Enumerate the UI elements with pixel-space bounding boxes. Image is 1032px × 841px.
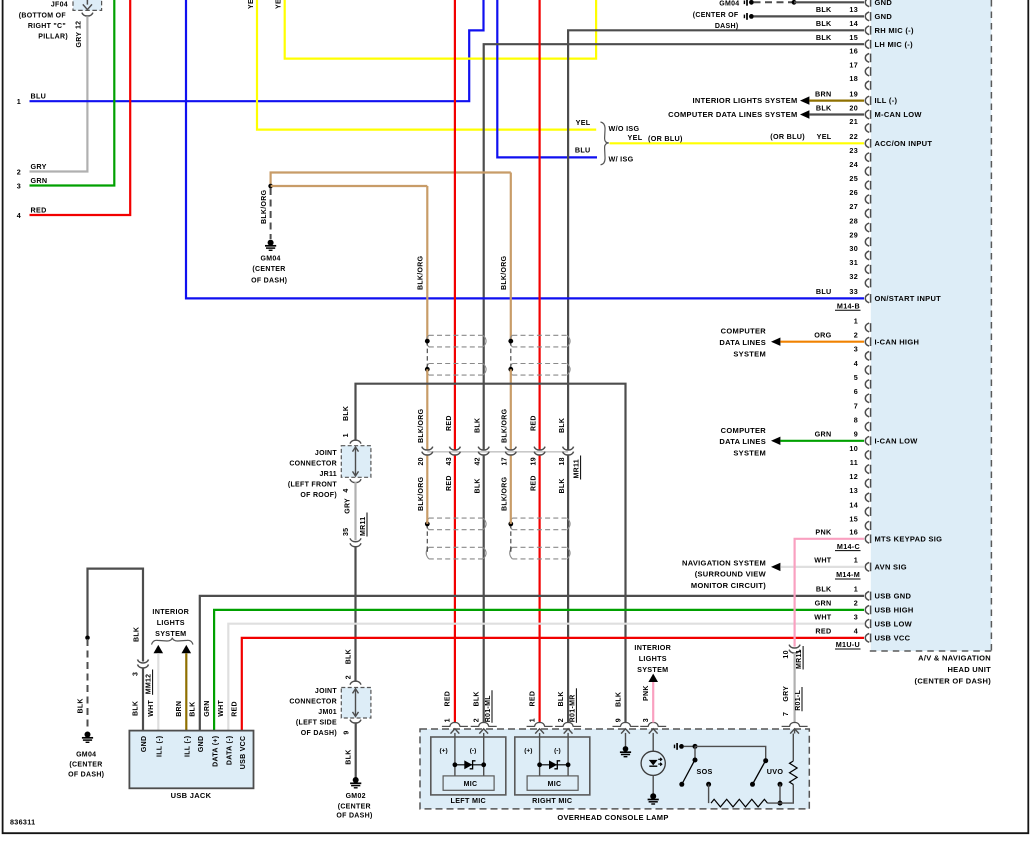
svg-text:MR11: MR11	[360, 517, 367, 537]
svg-text:SYSTEM: SYSTEM	[155, 629, 186, 638]
svg-text:ILL (-): ILL (-)	[875, 96, 898, 105]
svg-text:(CENTER OF DASH): (CENTER OF DASH)	[915, 677, 992, 686]
svg-text:ACC/ON INPUT: ACC/ON INPUT	[875, 139, 933, 148]
svg-text:YEL: YEL	[628, 133, 643, 142]
wire BLK LH MIC(-) pin 15	[484, 44, 864, 450]
wire BLK USB GND long	[200, 596, 864, 731]
svg-text:30: 30	[849, 244, 858, 253]
GRY wire to lamp pin 7	[793, 653, 795, 723]
svg-text:9: 9	[615, 718, 622, 722]
svg-text:INTERIOR LIGHTS SYSTEM: INTERIOR LIGHTS SYSTEM	[693, 96, 798, 105]
wire BLK RH MIC(-) pin 14	[568, 30, 864, 450]
connector JF04 box (bottom of right C pillar)	[73, 0, 102, 10]
svg-text:BLU: BLU	[31, 92, 47, 101]
svg-text:BLK: BLK	[343, 406, 350, 421]
BLK/ORG shield drain wires to GM04	[271, 173, 511, 187]
svg-text:RED: RED	[529, 691, 536, 707]
svg-text:17: 17	[849, 60, 858, 69]
svg-text:M1U-U: M1U-U	[836, 640, 860, 649]
svg-text:1: 1	[343, 433, 350, 437]
svg-text:BLK/ORG: BLK/ORG	[418, 408, 425, 443]
LED lamp symbol	[652, 733, 654, 751]
svg-text:9: 9	[344, 730, 351, 734]
svg-text:(CENTER OF: (CENTER OF	[693, 12, 739, 19]
svg-text:HEAD UNIT: HEAD UNIT	[947, 665, 991, 674]
connector M14-B pin brackets 12-33	[865, 0, 869, 7]
svg-text:4: 4	[17, 211, 21, 220]
svg-text:BLK: BLK	[559, 418, 566, 433]
svg-text:42: 42	[474, 457, 481, 465]
red mic wire left (pin1 left mic) from top	[454, 0, 456, 450]
connector break above JM01	[350, 681, 361, 684]
svg-text:YEL: YEL	[276, 0, 283, 9]
svg-text:AVN SIG: AVN SIG	[875, 563, 907, 572]
svg-text:(-): (-)	[554, 748, 561, 755]
A/V & navigation head unit connector box (right)	[871, 0, 992, 651]
svg-text:DATA LINES: DATA LINES	[719, 437, 766, 446]
svg-text:10: 10	[783, 650, 790, 658]
svg-text:RED: RED	[531, 415, 538, 431]
svg-text:GM04: GM04	[260, 256, 280, 263]
svg-text:OF DASH): OF DASH)	[251, 277, 287, 284]
ground GM04 middle	[268, 240, 274, 246]
svg-text:COMPUTER DATA LINES SYSTEM: COMPUTER DATA LINES SYSTEM	[668, 110, 797, 119]
svg-text:COMPUTER: COMPUTER	[721, 327, 767, 336]
svg-text:(LEFT SIDE: (LEFT SIDE	[296, 719, 337, 726]
svg-text:BLK: BLK	[816, 585, 832, 594]
ground GM04 at pin 13	[743, 15, 745, 19]
svg-text:3: 3	[854, 345, 858, 354]
left mic internal wires	[454, 733, 456, 776]
svg-text:R01-MR: R01-MR	[569, 694, 576, 722]
svg-text:RIGHT "C": RIGHT "C"	[28, 23, 66, 30]
svg-text:(OR BLU): (OR BLU)	[648, 134, 683, 143]
svg-text:JOINT: JOINT	[315, 450, 338, 457]
svg-text:BLK: BLK	[615, 692, 622, 707]
svg-text:(CENTER: (CENTER	[252, 266, 285, 273]
lamp pin arrows (inside box)	[451, 729, 460, 734]
svg-text:WHT: WHT	[814, 556, 832, 565]
svg-text:BLK: BLK	[474, 691, 481, 706]
connector break below JR11	[350, 479, 361, 482]
connector M14-M pin bracket 1	[865, 563, 869, 572]
svg-text:YEL: YEL	[817, 132, 832, 141]
svg-text:UVO: UVO	[767, 767, 784, 776]
svg-text:1: 1	[854, 556, 858, 565]
svg-text:BLK/ORG: BLK/ORG	[418, 476, 425, 511]
svg-text:LEFT MIC: LEFT MIC	[451, 796, 487, 805]
svg-text:CONNECTOR: CONNECTOR	[289, 698, 337, 705]
svg-text:BLK: BLK	[345, 649, 352, 664]
dashed drop to ground GM04 (bottom left)	[87, 639, 89, 731]
svg-text:BLK: BLK	[816, 5, 832, 14]
svg-text:MTS KEYPAD SIG: MTS KEYPAD SIG	[875, 534, 943, 543]
svg-text:RIGHT MIC: RIGHT MIC	[532, 796, 572, 805]
svg-text:7: 7	[854, 401, 858, 410]
overhead console lamp box	[420, 729, 809, 809]
yellow wire W/O ISG option	[257, 0, 596, 130]
SOS switch pivot	[694, 746, 696, 758]
svg-text:15: 15	[849, 33, 858, 42]
svg-text:BLK/ORG: BLK/ORG	[261, 189, 268, 224]
svg-text:JM01: JM01	[318, 709, 337, 716]
vertical resistor to pin 7	[790, 761, 798, 785]
svg-text:19: 19	[849, 89, 858, 98]
svg-text:MR11: MR11	[796, 650, 803, 670]
svg-text:2: 2	[854, 331, 858, 340]
svg-text:18: 18	[849, 74, 858, 83]
svg-text:BRN: BRN	[815, 89, 831, 98]
svg-text:GND: GND	[875, 12, 893, 21]
arrow into JF04	[86, 0, 88, 5]
double arrow inside JR11	[355, 448, 357, 476]
svg-text:DATA (-): DATA (-)	[227, 736, 234, 765]
svg-text:BLK: BLK	[474, 418, 481, 433]
svg-text:SYSTEM: SYSTEM	[733, 448, 766, 457]
svg-text:GRN: GRN	[204, 700, 211, 716]
shield symbol lower left	[429, 517, 483, 519]
svg-text:26: 26	[849, 188, 858, 197]
svg-text:BLK: BLK	[559, 478, 566, 493]
red mic wire right (pin1 right mic) from top	[538, 0, 540, 450]
SOS switch blade (open)	[683, 762, 694, 783]
svg-text:12: 12	[849, 472, 858, 481]
svg-text:MR11: MR11	[574, 459, 581, 479]
connector break above JR11	[350, 440, 361, 443]
svg-text:OF DASH): OF DASH)	[336, 812, 372, 819]
arrow up ILL(-) BRN	[182, 645, 192, 653]
svg-text:31: 31	[849, 258, 858, 267]
svg-text:3: 3	[17, 181, 21, 190]
svg-text:USB VCC: USB VCC	[240, 736, 247, 770]
svg-text:4: 4	[343, 488, 350, 492]
svg-text:(BOTTOM OF: (BOTTOM OF	[19, 13, 67, 20]
svg-text:WHT: WHT	[814, 613, 832, 622]
svg-text:ON/START INPUT: ON/START INPUT	[875, 294, 942, 303]
svg-text:(+): (+)	[524, 748, 532, 755]
svg-text:PILLAR): PILLAR)	[38, 34, 68, 41]
svg-text:13: 13	[849, 486, 858, 495]
wire RED USB VCC long	[242, 638, 864, 731]
svg-text:OF DASH): OF DASH)	[301, 730, 337, 737]
brace over ILL arrows	[152, 638, 194, 645]
ground GM02	[353, 777, 359, 783]
svg-text:M-CAN LOW: M-CAN LOW	[875, 110, 923, 119]
right mic zener diode	[537, 762, 542, 767]
svg-text:25: 25	[849, 174, 858, 183]
wire BLK usb jack GND to GM04 via MM12	[142, 668, 144, 731]
svg-text:GRY: GRY	[344, 498, 351, 514]
svg-text:MONITOR CIRCUIT): MONITOR CIRCUIT)	[691, 581, 766, 590]
left mic zener diode	[453, 762, 458, 767]
svg-text:(CENTER: (CENTER	[69, 762, 102, 769]
svg-text:INTERIOR: INTERIOR	[634, 643, 671, 652]
svg-text:OVERHEAD CONSOLE LAMP: OVERHEAD CONSOLE LAMP	[557, 813, 668, 822]
left mic box	[431, 737, 506, 795]
svg-text:YEL: YEL	[248, 0, 255, 9]
svg-text:INTERIOR: INTERIOR	[152, 607, 189, 616]
arrow up interior lights (pnk)	[648, 674, 658, 682]
svg-text:1: 1	[854, 585, 858, 594]
svg-text:MM12: MM12	[146, 674, 153, 695]
wire 3 GRN to top	[30, 0, 115, 186]
UVO output contact	[778, 782, 783, 787]
svg-text:BRN: BRN	[176, 701, 183, 717]
wire PNK MTS keypad sig	[795, 539, 864, 647]
svg-text:JF04: JF04	[51, 1, 68, 8]
svg-text:2: 2	[558, 718, 565, 722]
svg-text:NAVIGATION SYSTEM: NAVIGATION SYSTEM	[682, 558, 766, 567]
svg-text:RED: RED	[445, 691, 452, 707]
svg-text:ILL (-): ILL (-)	[185, 736, 192, 757]
in-line connector MM12 break	[138, 660, 149, 663]
svg-text:GND: GND	[141, 736, 148, 752]
lamp pin 9 internal ground	[625, 733, 627, 747]
svg-text:20: 20	[418, 457, 425, 465]
joint connector JR11 box	[341, 446, 371, 478]
wire 1 BLU long path to top	[30, 0, 484, 101]
svg-text:RED: RED	[446, 415, 453, 431]
svg-text:BLK: BLK	[816, 19, 832, 28]
wire YEL (OR BLU) to ACC/ON pin 22	[610, 142, 865, 144]
wire GRN USB HIGH long	[214, 610, 864, 731]
svg-text:I-CAN LOW: I-CAN LOW	[875, 436, 919, 445]
svg-text:20: 20	[849, 103, 858, 112]
joint connector JM01 box	[341, 688, 371, 719]
svg-text:1: 1	[854, 316, 858, 325]
svg-text:M14-B: M14-B	[837, 302, 860, 311]
svg-text:7: 7	[783, 712, 790, 716]
svg-text:2: 2	[854, 599, 858, 608]
dashed ground drop to GM04 (middle)	[270, 188, 272, 239]
SOS output contact to resistor	[706, 782, 711, 787]
svg-text:WHT: WHT	[218, 700, 225, 717]
svg-text:YEL: YEL	[576, 118, 591, 127]
left MIC inner box	[443, 776, 494, 790]
svg-text:DATA (+): DATA (+)	[212, 736, 219, 767]
svg-text:BLK: BLK	[345, 749, 352, 764]
svg-text:35: 35	[343, 528, 350, 536]
svg-text:19: 19	[531, 457, 538, 465]
BLK/ORG drain right vertical	[510, 173, 512, 342]
svg-text:WHT: WHT	[148, 700, 155, 717]
svg-text:(-): (-)	[470, 748, 477, 755]
svg-text:1: 1	[529, 718, 536, 722]
svg-text:33: 33	[849, 287, 858, 296]
yellow loop wire via top	[285, 0, 596, 59]
svg-text:4: 4	[854, 359, 858, 368]
svg-text:PNK: PNK	[643, 685, 650, 701]
svg-text:3: 3	[132, 672, 139, 676]
svg-text:27: 27	[849, 202, 858, 211]
GRY wire below JR11	[354, 482, 356, 541]
USB jack box	[129, 731, 253, 789]
svg-text:21: 21	[849, 117, 858, 126]
svg-text:28: 28	[849, 216, 858, 225]
svg-text:USB JACK: USB JACK	[171, 791, 212, 800]
svg-text:16: 16	[849, 528, 858, 537]
svg-text:W/O ISG: W/O ISG	[609, 124, 640, 133]
PNK wire to lamp pin 3	[652, 682, 654, 723]
svg-text:LIGHTS: LIGHTS	[157, 618, 185, 627]
svg-text:PNK: PNK	[815, 528, 832, 537]
in-line connector MR11 pin 10 break	[789, 645, 800, 648]
svg-text:LH MIC (-): LH MIC (-)	[875, 40, 914, 49]
connector M14-C pin brackets 1-16	[865, 323, 869, 332]
lamp pin bumps	[450, 722, 460, 726]
in-line connector MR11 breaks (six wires)	[422, 447, 433, 450]
svg-text:M14-C: M14-C	[837, 542, 860, 551]
svg-text:14: 14	[849, 19, 858, 28]
svg-text:SOS: SOS	[697, 767, 713, 776]
svg-text:COMPUTER: COMPUTER	[721, 426, 767, 435]
svg-text:(OR BLU): (OR BLU)	[770, 132, 805, 141]
double arrow inside JM01	[355, 689, 357, 716]
svg-text:BLK/ORG: BLK/ORG	[502, 476, 509, 511]
connector break below JM01	[350, 720, 361, 723]
svg-text:13: 13	[849, 5, 858, 14]
svg-text:RH MIC (-): RH MIC (-)	[875, 26, 914, 35]
svg-text:3: 3	[643, 718, 650, 722]
svg-text:17: 17	[502, 457, 509, 465]
wire BLK from lamp pin 9 up and to JR11	[356, 384, 626, 723]
svg-text:M14-M: M14-M	[836, 570, 860, 579]
ground GM04 at pin 12 (dashed)	[743, 0, 745, 4]
svg-text:JOINT: JOINT	[315, 688, 338, 695]
svg-text:1: 1	[17, 97, 21, 106]
blue wire W/ ISG option	[497, 0, 597, 157]
svg-text:8: 8	[854, 415, 858, 424]
wire 4 RED to top	[30, 0, 131, 215]
svg-text:USB LOW: USB LOW	[875, 619, 913, 628]
svg-text:29: 29	[849, 231, 858, 240]
svg-text:A/V & NAVIGATION: A/V & NAVIGATION	[918, 654, 991, 663]
svg-text:43: 43	[446, 457, 453, 465]
lamp switch circuit: chassis ground	[674, 745, 676, 749]
BLK wire from MR11 break down to JM01	[354, 546, 356, 681]
svg-text:2: 2	[17, 167, 21, 176]
svg-text:2: 2	[474, 718, 481, 722]
svg-text:JR11: JR11	[319, 471, 337, 478]
svg-text:SYSTEM: SYSTEM	[733, 349, 766, 358]
svg-text:GRN: GRN	[815, 430, 832, 439]
svg-text:(LEFT FRONT: (LEFT FRONT	[288, 481, 338, 488]
blue wire ON/START INPUT pin 33	[186, 0, 864, 298]
svg-text:GM04: GM04	[76, 752, 96, 759]
svg-text:4: 4	[854, 627, 858, 636]
svg-text:9: 9	[854, 430, 858, 439]
svg-text:BLK: BLK	[816, 33, 832, 42]
shield symbol upper left	[429, 334, 483, 336]
shield symbol upper right	[512, 334, 567, 336]
wire ground to junction A	[684, 745, 695, 747]
shield symbol lower right	[512, 517, 567, 519]
svg-text:R01-L: R01-L	[795, 689, 802, 710]
svg-text:I-CAN HIGH: I-CAN HIGH	[875, 337, 920, 346]
right mic internal wires	[539, 733, 541, 776]
svg-text:USB GND: USB GND	[875, 592, 912, 601]
svg-text:RED: RED	[531, 475, 538, 491]
svg-text:BLK/ORG: BLK/ORG	[502, 408, 509, 443]
BLK wire to GM02 ground	[355, 722, 357, 778]
svg-text:BLU: BLU	[816, 287, 832, 296]
svg-text:11: 11	[850, 458, 858, 467]
svg-text:RED: RED	[446, 475, 453, 491]
thin link line of MR11 in-line connector row	[427, 451, 568, 453]
right MIC inner box	[527, 776, 578, 790]
svg-text:MIC: MIC	[548, 781, 562, 788]
svg-text:2: 2	[345, 675, 352, 679]
svg-text:LIGHTS: LIGHTS	[639, 654, 667, 663]
svg-text:DATA LINES: DATA LINES	[719, 338, 766, 347]
svg-text:1: 1	[445, 718, 452, 722]
svg-text:BLK: BLK	[474, 478, 481, 493]
svg-text:GRY: GRY	[76, 32, 83, 48]
right mic box	[515, 737, 590, 795]
svg-text:MIC: MIC	[464, 781, 478, 788]
svg-text:W/ ISG: W/ ISG	[609, 155, 634, 164]
svg-text:GM02: GM02	[346, 793, 366, 800]
svg-text:GRN: GRN	[815, 599, 832, 608]
brace joining ISG options	[601, 122, 609, 165]
ground GM04 bottom-left	[85, 732, 91, 738]
svg-text:BLK: BLK	[816, 103, 832, 112]
drain continuation left	[426, 369, 428, 450]
svg-text:RED: RED	[232, 701, 239, 717]
svg-text:(+): (+)	[440, 748, 448, 755]
svg-text:12: 12	[76, 21, 83, 29]
svg-text:GRY: GRY	[783, 686, 790, 702]
wire WHT USB LOW long	[228, 624, 864, 731]
svg-text:24: 24	[849, 160, 858, 169]
svg-text:GND: GND	[198, 736, 205, 752]
svg-text:10: 10	[849, 444, 858, 453]
wire resistor to vertical resistor	[768, 785, 794, 804]
svg-text:USB HIGH: USB HIGH	[875, 606, 914, 615]
svg-text:32: 32	[849, 272, 858, 281]
svg-text:BLK: BLK	[190, 702, 197, 717]
svg-text:3: 3	[854, 613, 858, 622]
svg-text:OF ROOF): OF ROOF)	[300, 492, 337, 499]
svg-text:GM04: GM04	[719, 1, 739, 8]
svg-text:836311: 836311	[10, 818, 35, 827]
svg-text:BLK: BLK	[77, 698, 84, 713]
svg-text:16: 16	[849, 47, 858, 56]
wire 2 GRY from JF04 to stub	[30, 16, 88, 171]
LED to ground	[652, 775, 654, 794]
svg-text:R01-ML: R01-ML	[485, 695, 492, 723]
svg-text:GRN: GRN	[31, 176, 48, 185]
svg-text:GRY: GRY	[31, 162, 47, 171]
svg-text:5: 5	[854, 373, 858, 382]
svg-text:18: 18	[559, 457, 566, 465]
connector break JF04 pin 12	[82, 13, 93, 16]
svg-text:GND: GND	[875, 0, 893, 7]
svg-text:ORG: ORG	[814, 331, 831, 340]
svg-text:ILL (-): ILL (-)	[157, 736, 164, 757]
svg-text:BLK/ORG: BLK/ORG	[418, 255, 425, 290]
svg-text:23: 23	[849, 146, 858, 155]
connector M1U-U pin brackets 1-4	[865, 592, 869, 601]
drain continuation right	[510, 369, 512, 450]
in-line connector break MR11 pin 35	[350, 538, 361, 541]
svg-text:BLK: BLK	[558, 691, 565, 706]
svg-text:OF DASH): OF DASH)	[68, 772, 104, 779]
svg-text:RED: RED	[31, 206, 47, 215]
svg-text:14: 14	[849, 500, 858, 509]
svg-text:15: 15	[849, 515, 858, 524]
svg-text:(CENTER: (CENTER	[338, 803, 371, 810]
